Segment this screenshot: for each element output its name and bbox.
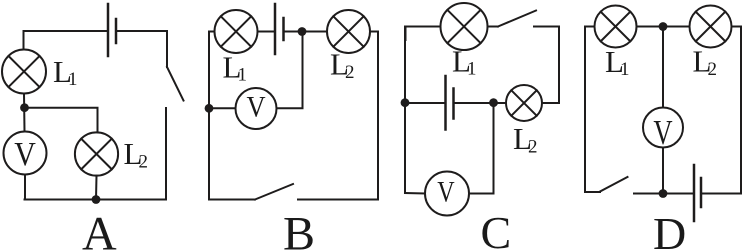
wire: C bottom to voltmeter bbox=[405, 192, 425, 195]
voltmeter V (C) bbox=[425, 172, 469, 216]
wire: B lamp L1 to battery bbox=[258, 31, 276, 33]
switch S(B) blade bbox=[255, 184, 293, 200]
svg-text:L1: L1 bbox=[605, 44, 629, 80]
svg-text:V: V bbox=[437, 176, 455, 209]
wire: B node to voltmeter bbox=[209, 107, 236, 109]
switch S(A) blade bbox=[167, 67, 184, 101]
lamp L2 (B) bbox=[327, 10, 370, 53]
wire: D lamp L2 to top-right corner bbox=[732, 27, 742, 194]
wire: C battery to left node bbox=[405, 102, 446, 104]
voltmeter V (A) bbox=[4, 132, 47, 175]
wire: A lamp L2 bottom bbox=[95, 176, 98, 200]
svg-text:L1: L1 bbox=[53, 54, 77, 90]
battery B1(D) short plate bbox=[700, 178, 703, 207]
wire: B bottom-left bbox=[209, 199, 255, 201]
svg-text:A: A bbox=[82, 208, 117, 250]
wire: B bottom-right bbox=[298, 199, 378, 201]
wire: C left side bbox=[404, 27, 406, 194]
battery B1(D) long plate bbox=[693, 165, 696, 221]
wire: C switch contact to top-right corner bbox=[534, 27, 559, 104]
node: B top junction (dot) bbox=[298, 27, 307, 36]
battery B1(C) long plate bbox=[444, 76, 447, 130]
switch S(C) blade bbox=[498, 11, 536, 27]
wire: D bottom to battery bbox=[634, 193, 694, 195]
battery B1(A) short plate bbox=[115, 19, 118, 43]
voltmeter V (B) bbox=[236, 88, 277, 129]
wire: C right corner to lamp L2 bbox=[542, 102, 559, 104]
node: C right junction (dot) bbox=[489, 98, 498, 107]
lamp L1 (B) bbox=[215, 10, 258, 53]
wire: A top-left corner / top wire to battery bbox=[24, 31, 109, 50]
node: A bottom junction (dot) bbox=[92, 195, 101, 204]
svg-text:D: D bbox=[653, 208, 686, 250]
wire: C lamp L2 to right node bbox=[494, 102, 507, 104]
svg-text:V: V bbox=[246, 91, 265, 124]
node: B left junction (dot) bbox=[205, 104, 214, 113]
wire: B voltmeter to top node bbox=[277, 32, 303, 109]
wire: B battery to lamp L2 bbox=[284, 31, 328, 33]
lamp L2 (D) bbox=[690, 6, 732, 48]
wire: B left side bbox=[208, 32, 210, 200]
lamp L1 (A) bbox=[2, 50, 46, 94]
wire: D lamp L1 to lamp L2 bbox=[637, 26, 690, 28]
wire: C node to battery bbox=[454, 102, 494, 104]
svg-text:L2: L2 bbox=[693, 44, 717, 81]
battery B1(A) long plate bbox=[107, 4, 110, 56]
lamp L2 (A) bbox=[75, 132, 118, 175]
wire: D middle node to voltmeter bbox=[662, 27, 664, 108]
wire: A V bottom to bottom wire bbox=[24, 175, 26, 200]
wire: D left side bbox=[585, 27, 600, 193]
svg-text:C: C bbox=[481, 207, 512, 250]
svg-text:L2: L2 bbox=[513, 121, 537, 158]
node: D bottom junction (dot) bbox=[659, 189, 668, 198]
wire: A bottom wire bbox=[25, 199, 167, 201]
switch S(D) blade bbox=[600, 177, 628, 192]
wire: C voltmeter right up to node bbox=[469, 103, 494, 194]
wire: A battery to top-right corner bbox=[116, 31, 167, 67]
wire: C top-left corner to lamp L1 bbox=[406, 27, 441, 41]
battery B1(C) short plate bbox=[452, 89, 455, 119]
wire: D voltmeter to bottom node bbox=[662, 148, 664, 194]
lamp L2 (C) bbox=[506, 85, 542, 121]
svg-text:V: V bbox=[14, 136, 36, 173]
wire: A right side below switch bbox=[165, 108, 167, 200]
battery B1(B) short plate bbox=[282, 18, 285, 40]
svg-text:L1: L1 bbox=[223, 50, 247, 86]
svg-text:L2: L2 bbox=[124, 136, 148, 173]
node: A junction top (dot) bbox=[20, 103, 29, 112]
svg-text:B: B bbox=[283, 208, 315, 250]
battery B1(B) long plate bbox=[274, 4, 277, 54]
node: C left junction (dot) bbox=[401, 98, 410, 107]
wire: D top-left corner bbox=[585, 27, 595, 41]
wire: B top-left corner stub bbox=[209, 32, 215, 46]
wire: D battery to bottom-right corner bbox=[701, 193, 741, 195]
wire: A branch node to lamp L2 bbox=[25, 108, 98, 133]
wire: C lamp L1 to switch pivot bbox=[488, 26, 499, 28]
lamp L1 (D) bbox=[595, 6, 637, 48]
wire: B lamp L2 to top-right corner bbox=[370, 32, 378, 200]
voltmeter V (D) bbox=[643, 108, 683, 153]
wire: A lamp L1 bottom to node bbox=[23, 94, 26, 132]
svg-text:V: V bbox=[653, 113, 672, 152]
node: D top junction (dot) bbox=[659, 22, 668, 31]
lamp L1 (C) bbox=[441, 3, 488, 50]
